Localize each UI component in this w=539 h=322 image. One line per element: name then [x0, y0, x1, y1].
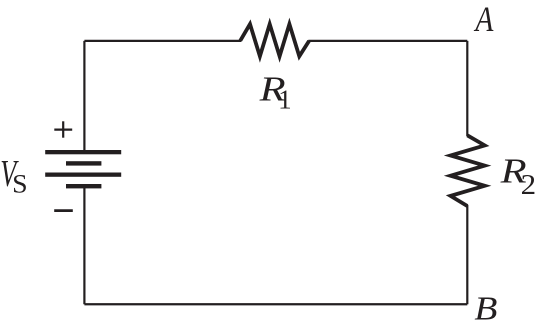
- resistor R2: [451, 135, 485, 206]
- svg-text:1: 1: [278, 84, 292, 114]
- battery VS plate 2 short: [66, 161, 101, 165]
- svg-text:2: 2: [521, 169, 537, 201]
- wire top-left segment: [84, 40, 241, 42]
- wire right lower segment: [466, 205, 468, 304]
- resistor R1: [240, 24, 309, 56]
- battery VS plate 3 long: [45, 173, 121, 177]
- battery VS plate 4 short: [66, 184, 101, 188]
- wire left lower segment: [83, 186, 85, 304]
- svg-text:B: B: [474, 291, 497, 322]
- battery plus sign: [54, 121, 72, 137]
- wire top-right segment: [308, 40, 467, 42]
- battery minus sign: [54, 209, 73, 212]
- svg-text:S: S: [12, 169, 28, 198]
- wire left upper segment: [83, 41, 85, 152]
- svg-text:A: A: [474, 0, 494, 39]
- battery VS plate 1 long: [45, 150, 121, 154]
- wire bottom segment: [84, 303, 467, 305]
- wire right upper segment: [466, 41, 468, 136]
